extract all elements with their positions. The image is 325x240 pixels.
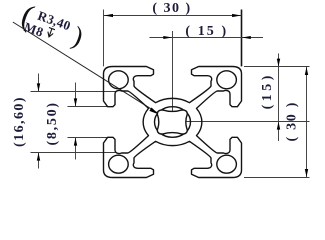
svg-text:(15): (15): [260, 72, 275, 109]
extension line right of top dims (thick): [241, 10, 243, 67]
svg-text:( 30 ): ( 30 ): [152, 1, 191, 16]
dimension 16,60 left: [38, 74, 40, 92]
extension line 16,60 top: [31, 91, 116, 93]
corner hole bottom-left: [109, 155, 129, 173]
central boss circle: [155, 107, 191, 138]
extension line 8,50 top: [68, 106, 111, 108]
corner hole top-left: [109, 71, 129, 89]
dimension 30 top: [104, 15, 242, 17]
corner hole top-right: [217, 71, 237, 89]
dimension 15 right: [278, 54, 280, 142]
svg-text:(16,60): (16,60): [12, 96, 27, 147]
corner hole bottom-right: [217, 155, 237, 173]
extension line 16,60 bottom: [31, 152, 116, 154]
svg-text:(8,50): (8,50): [45, 101, 60, 145]
svg-text:( 30 ): ( 30 ): [284, 101, 299, 142]
profile outline: [104, 67, 242, 178]
svg-text:): ): [69, 20, 87, 51]
extension line top right: [244, 66, 310, 68]
extension line 8,50 bottom: [68, 137, 111, 139]
leader line R3,40 M8: [13, 22, 171, 121]
extension line center horizontal: [173, 121, 310, 123]
depth symbol: [46, 28, 55, 38]
extension line left of top 30 dim: [103, 10, 105, 67]
extension line bottom right: [244, 177, 310, 179]
dimension 8,50 left: [75, 83, 77, 107]
extension line center vertical: [172, 31, 174, 124]
center hole M8: [157, 110, 187, 134]
svg-text:( 15 ): ( 15 ): [185, 24, 228, 39]
dimension 30 right: [306, 67, 308, 178]
dimension 15 top: [150, 37, 264, 39]
